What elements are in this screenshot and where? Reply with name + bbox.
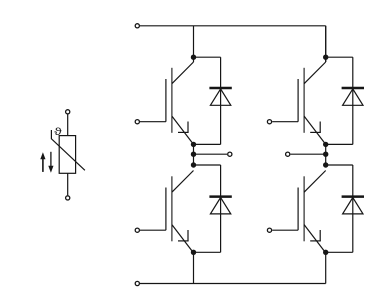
wire D2 branch vertical <box>220 165 222 252</box>
wire emitter junction to D1 anode <box>194 143 221 145</box>
Q4 emitter diagonal <box>304 225 326 253</box>
Q1 emitter arrow barb horizontal <box>178 131 189 133</box>
terminal DC+ <box>135 24 139 28</box>
wire gate lead of Q4 <box>272 229 298 231</box>
thermistor R1 body rectangle <box>59 136 75 174</box>
node Q3 emitter junction <box>323 142 328 147</box>
IGBT Q1 <box>166 62 194 144</box>
Q4 emitter arrow barb vertical <box>319 230 321 241</box>
Q3 emitter arrow barb vertical <box>319 122 321 133</box>
terminal AC1 <box>228 152 232 156</box>
diode D3 triangle <box>343 89 363 105</box>
Q3 gate bar <box>297 79 299 122</box>
wire phase 2 output lead <box>291 153 326 155</box>
Q1 emitter diagonal <box>172 116 194 144</box>
down arrow (temperature) <box>48 152 53 173</box>
gate terminal G4 <box>267 228 271 232</box>
wire collector junction to D1 cathode branch <box>194 56 221 58</box>
terminal DC- <box>135 281 139 285</box>
wire emitter junction to D3 anode <box>326 143 353 145</box>
IGBT Q3 <box>298 62 326 144</box>
Q2 emitter diagonal <box>172 225 194 253</box>
node Q1 collector junction <box>191 55 196 60</box>
wire top rail right corner down <box>325 26 327 62</box>
wire phase node vertical <box>193 144 195 165</box>
gate terminal G1 <box>135 120 139 124</box>
wire DC+ drop to Q1 collector <box>193 26 195 62</box>
wire D3 branch vertical (cathode side down to phase node) <box>352 57 354 144</box>
node phase output junction <box>191 152 196 157</box>
wire emitter junction to D4 anode <box>326 251 353 253</box>
Q4 channel bar <box>303 176 305 241</box>
wire D4 branch vertical <box>352 165 354 252</box>
Q2 channel bar <box>171 176 173 241</box>
Q2 emitter arrow barb vertical <box>187 230 189 241</box>
diode D1 triangle <box>210 89 230 105</box>
thermistor R1 bottom terminal <box>66 196 70 200</box>
gate terminal G3 <box>267 120 271 124</box>
Q2 emitter arrow barb horizontal <box>178 240 189 242</box>
node Q2 emitter junction <box>191 250 196 255</box>
node Q2 collector junction <box>191 162 196 167</box>
Q1 emitter arrow barb vertical <box>187 122 189 133</box>
wire DC+ drop to Q3 collector <box>325 26 327 62</box>
node Q4 emitter junction <box>323 250 328 255</box>
up arrow (resistance) <box>40 152 45 172</box>
Q1 collector diagonal <box>172 62 194 84</box>
wire R1 bottom lead <box>67 173 69 195</box>
Q4 gate bar <box>297 188 299 231</box>
Q3 emitter arrow barb horizontal <box>310 131 321 133</box>
Q4 emitter arrow barb horizontal <box>310 240 321 242</box>
node Q3 collector junction <box>323 55 328 60</box>
Q3 emitter diagonal <box>304 116 326 144</box>
wire phase 1 output lead <box>194 153 228 155</box>
Q4 collector diagonal <box>304 171 326 193</box>
node phase output junction <box>323 152 328 157</box>
Q1 channel bar <box>171 68 173 133</box>
Q2 gate bar <box>165 188 167 231</box>
diode D1 cathode bar <box>209 87 231 90</box>
wire R1 top lead <box>67 114 69 135</box>
wire gate lead of Q1 <box>140 121 166 123</box>
node Q1 emitter junction <box>191 142 196 147</box>
Q3 collector diagonal <box>304 62 326 84</box>
diode D2 cathode bar <box>209 195 231 198</box>
diode D3 cathode bar <box>342 87 364 90</box>
wire Q4 emitter down to DC- rail <box>325 252 327 283</box>
wire emitter junction to D2 anode <box>194 251 221 253</box>
terminal AC2 <box>286 152 290 156</box>
wire collector junction to D2 cathode branch <box>194 164 221 166</box>
wire D1 branch vertical (cathode side down to phase node) <box>220 57 222 144</box>
Q3 channel bar <box>303 68 305 133</box>
node Q4 collector junction <box>323 162 328 167</box>
Q1 gate bar <box>165 79 167 122</box>
gate terminal G2 <box>135 228 139 232</box>
wire Q2 emitter down to DC- rail <box>193 252 195 283</box>
Q2 collector diagonal <box>172 171 194 193</box>
svg-text:ϑ: ϑ <box>54 126 62 138</box>
thermistor R1 (NTC) top terminal <box>66 110 70 114</box>
wire collector junction to D4 cathode branch <box>326 164 353 166</box>
wire gate lead of Q3 <box>272 121 298 123</box>
IGBT Q4 <box>298 171 326 253</box>
diode D4 triangle <box>343 198 363 214</box>
diode D2 triangle <box>210 198 230 214</box>
wire DC+ top rail <box>140 25 326 27</box>
thermistor R1 diagonal stroke with hook <box>51 130 85 170</box>
wire gate lead of Q2 <box>140 229 166 231</box>
IGBT Q2 <box>166 171 194 253</box>
wire DC- bottom rail <box>140 283 326 285</box>
wire collector junction to D3 cathode branch <box>326 56 353 58</box>
wire phase node vertical <box>325 144 327 165</box>
diode D4 cathode bar <box>342 195 364 198</box>
